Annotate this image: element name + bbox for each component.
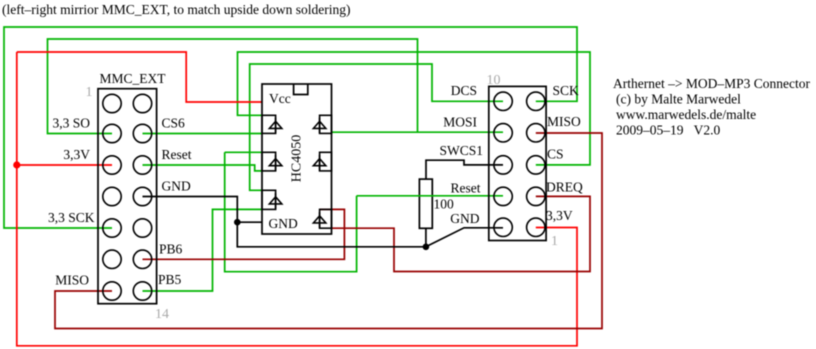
svg-text:MMC_EXT: MMC_EXT	[100, 71, 167, 86]
wire net 3,3 SO / MOSI (green)	[48, 39, 504, 134]
svg-text:SWCS1: SWCS1	[439, 143, 483, 158]
svg-text:3,3 SCK: 3,3 SCK	[48, 210, 95, 225]
wire net MISO (dark red)	[55, 133, 602, 329]
svg-text:MISO: MISO	[547, 114, 581, 129]
wire net CS (green): buffer input rail to CS	[238, 52, 591, 165]
svg-text:SCK: SCK	[553, 83, 580, 98]
svg-text:Arthernet –> MOD–MP3 Connector: Arthernet –> MOD–MP3 Connector	[613, 76, 810, 91]
wire net PB5 / Reset MOD (green)	[143, 152, 357, 291]
junction 3,3V (red dot)	[13, 161, 20, 168]
svg-text:3,3V: 3,3V	[63, 147, 90, 162]
pin-1 notch	[294, 84, 308, 95]
svg-text:CS6: CS6	[162, 115, 186, 130]
svg-text:1: 1	[551, 234, 558, 249]
svg-text:PB6: PB6	[159, 242, 183, 257]
connector MMC_EXT body	[98, 89, 157, 304]
wire net DCS (green)	[250, 64, 503, 190]
svg-text:Reset: Reset	[451, 181, 481, 196]
junction GND at resistor (black dot)	[423, 244, 430, 251]
wire net SCK (green): 3,3 SCK to SCK	[4, 27, 577, 228]
svg-text:2009–05–19 V2.0: 2009–05–19 V2.0	[616, 123, 720, 138]
MOD-MP3 pads	[494, 92, 545, 236]
svg-text:1: 1	[86, 85, 93, 100]
svg-text:14: 14	[155, 307, 169, 322]
wire net PB6 (dark red)	[143, 209, 345, 259]
svg-text:CS: CS	[547, 147, 564, 162]
svg-text:Vcc: Vcc	[269, 91, 291, 106]
op-amp U1 HC4050 body	[262, 84, 332, 234]
wire net 3,3V (bright red)	[17, 52, 577, 346]
wire SWCS1 (black)	[426, 160, 503, 179]
buffer pin box R2 right	[313, 152, 331, 171]
wire net DREQ (dark red)	[332, 196, 591, 271]
buffer pin box B1 left	[262, 115, 282, 133]
svg-text:DREQ: DREQ	[546, 180, 583, 195]
svg-text:www.marwedels.de/malte: www.marwedels.de/malte	[616, 107, 756, 122]
svg-text:GND: GND	[162, 179, 191, 194]
svg-text:GND: GND	[450, 211, 479, 226]
wire CS6 (green)	[143, 133, 263, 135]
svg-text:MISO: MISO	[55, 273, 89, 288]
title block text	[613, 76, 810, 138]
resistor R1	[419, 179, 432, 228]
svg-text:GND: GND	[269, 216, 298, 231]
buffer pin box R1 right	[313, 115, 331, 133]
svg-text:Reset: Reset	[162, 147, 192, 162]
MMC_EXT pads	[103, 94, 152, 300]
svg-text:10: 10	[487, 73, 501, 88]
svg-text:(c) by Malte Marwedel: (c) by Malte Marwedel	[616, 92, 741, 107]
wire resistor bottom stub (black)	[425, 228, 427, 247]
svg-text:PB5: PB5	[158, 272, 182, 287]
buffer pin box B2 left	[262, 152, 282, 171]
wire net GND (black)	[143, 197, 504, 247]
svg-text:100: 100	[434, 197, 455, 212]
svg-text:3,3 SO: 3,3 SO	[52, 116, 90, 131]
buffer pin box R3 right	[313, 209, 331, 228]
svg-text:HC4050: HC4050	[290, 135, 305, 182]
svg-text:MOSI: MOSI	[443, 115, 477, 130]
svg-text:3,3V: 3,3V	[546, 208, 573, 223]
connector MOD-MP3 body	[489, 86, 546, 240]
buffer pin box B3 left	[262, 190, 282, 209]
wire Reset MMC side (green)	[143, 165, 263, 171]
svg-text:DCS: DCS	[451, 83, 477, 98]
svg-text:(left–right mirrior MMC_EXT, t: (left–right mirrior MMC_EXT, to match up…	[2, 2, 350, 17]
wire Reset MOD horizontal (green, over resistor)	[357, 195, 503, 197]
junction GND at HC4050 (black dot)	[234, 219, 241, 226]
